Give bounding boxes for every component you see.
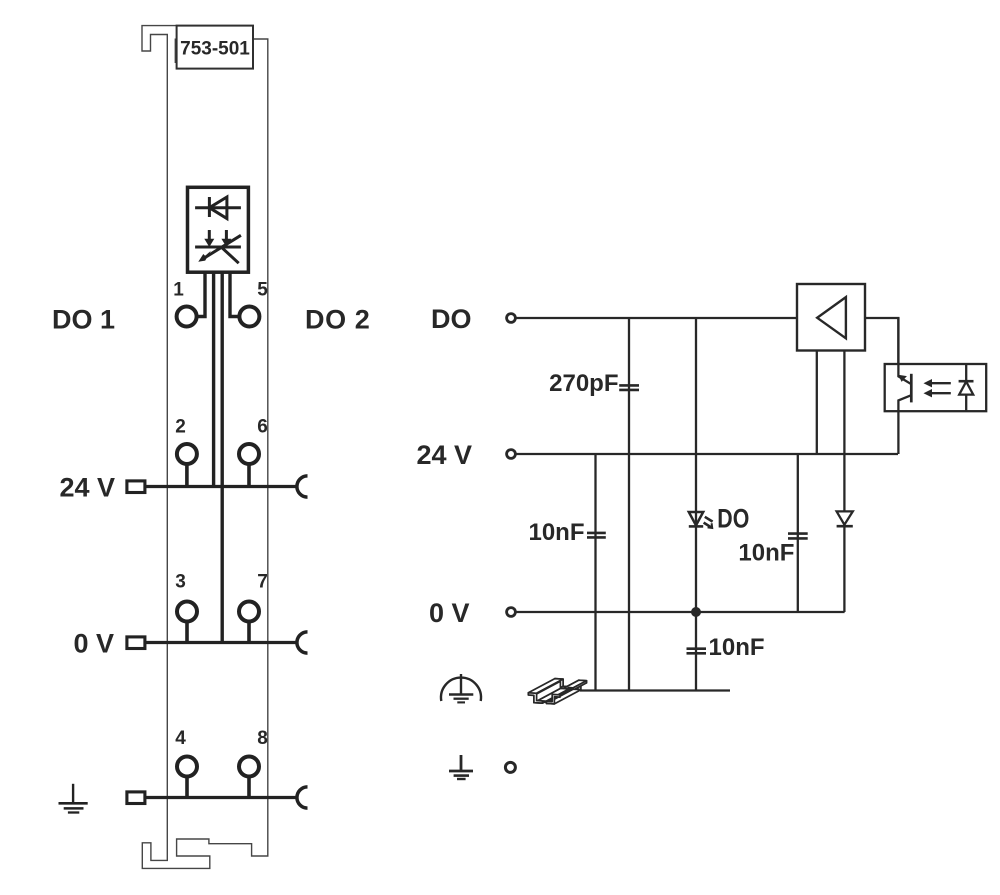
svg-text:10nF: 10nF [709,634,765,661]
pin 4 [177,757,197,777]
capacitor 10nF left plates [587,532,606,535]
opto LED triangle [959,382,973,395]
0V bus wire [145,641,296,644]
24V bus clamp arc [297,476,308,497]
svg-text:24 V: 24 V [417,440,473,470]
svg-text:7: 7 [257,572,268,593]
opto collector arrow [898,375,907,382]
earth bus clamp arc [297,787,308,808]
wire LED box to 24V bus [212,273,215,487]
pin 8 stub [247,777,251,800]
pin 5 [239,307,259,327]
svg-text:1: 1 [173,280,184,301]
DO terminal [507,314,516,323]
earth bus connector rect [127,792,145,804]
pin 8 [239,757,259,777]
svg-text:10nF: 10nF [738,540,794,567]
svg-text:10nF: 10nF [528,519,584,546]
ground symbol left [59,784,88,813]
diode symbol [837,511,853,524]
earth symbol bottom [449,755,473,779]
pin 1 [177,307,197,327]
svg-text:DO 1: DO 1 [52,305,115,335]
svg-text:6: 6 [257,417,268,438]
svg-text:0 V: 0 V [429,598,470,628]
24V bus wire [145,485,296,488]
indicator diode symbol [195,197,241,219]
svg-text:2: 2 [175,417,186,438]
pin 4 stub [185,777,189,800]
wire LED box to 0V bus [220,273,223,643]
pin 3 [177,602,197,622]
24V wire [516,453,898,455]
pin 7 [239,602,259,622]
svg-text:270pF: 270pF [549,370,618,397]
svg-text:4: 4 [175,728,186,749]
functional earth symbol [441,674,481,702]
pin 7 stub [247,622,251,645]
pin 6 [239,444,259,464]
optocoupler box [885,364,987,411]
svg-text:3: 3 [175,572,186,593]
opto collector wire [898,318,911,384]
svg-text:24 V: 24 V [60,472,116,502]
amplifier triangle [817,297,846,338]
capacitor 270pF branch wire [628,318,630,691]
24V terminal [507,450,516,459]
svg-text:753-501: 753-501 [180,39,250,60]
24V bus connector rect [127,481,145,493]
LED indicator box [188,187,249,272]
wire LED box to pin 1 [197,273,205,317]
svg-text:DO: DO [431,304,472,334]
0V terminal [507,608,516,617]
pin 2 stub [185,464,189,488]
svg-text:5: 5 [257,280,268,301]
LED DO emission arrows [704,517,713,528]
0V bus connector rect [127,637,145,649]
internal ground bus [580,689,730,691]
earth terminal [505,762,515,772]
amplifier left leg [816,351,818,455]
label box 753-501 [177,26,253,69]
0V bus clamp arc [297,632,308,653]
pin 2 [177,444,197,464]
DIN rail symbol [528,679,586,704]
junction 0V/LED branch [691,607,701,617]
capacitor 10nF bottom plates [687,647,707,650]
svg-text:0 V: 0 V [74,628,115,658]
module front edge tick [174,39,176,64]
opto LED bar [959,380,974,383]
earth bus wire [145,796,296,799]
opto emitter wire [898,395,911,454]
diode branch wire [843,351,845,613]
wire LED box to pin 5 [230,273,239,317]
svg-text:8: 8 [257,728,268,749]
svg-text:DO: DO [717,503,749,533]
capacitor 10nF left branch wire [594,454,596,691]
amplifier box [797,284,865,351]
capacitor 270pF plates [619,384,639,387]
wire amp output [865,318,898,376]
opto transistor bar [910,374,913,403]
indicator arrows symbol [195,230,241,263]
0V wire [516,611,845,613]
capacitor 10nF right branch wire [797,454,799,612]
LED DO symbol [689,512,703,525]
LED DO branch wire [695,318,697,691]
pin 3 stub [185,622,189,645]
svg-text:DO 2: DO 2 [305,305,370,335]
pin 6 stub [247,464,251,488]
module outline 753-501 body [142,26,268,869]
opto light arrows [924,379,951,397]
DO wire [516,317,797,319]
opto LED wire [965,364,967,411]
capacitor 10nF right plates [788,532,808,535]
